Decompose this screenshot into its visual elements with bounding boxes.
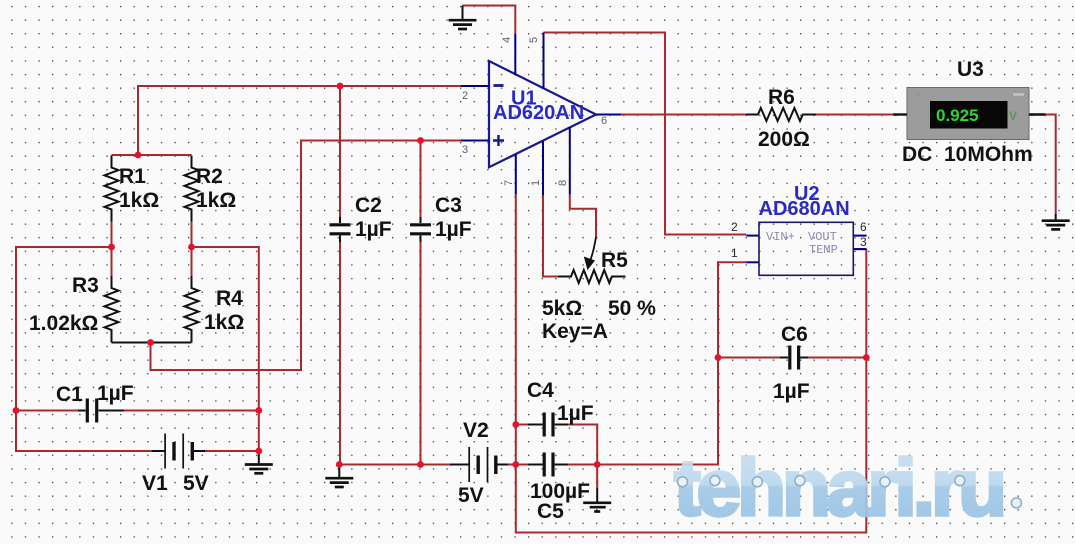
wire U3 to right ground — [1045, 115, 1056, 215]
svg-text:2: 2 — [462, 90, 468, 102]
svg-text:3: 3 — [462, 144, 468, 156]
U3 minus terminal mark — [1013, 93, 1024, 95]
wire U1 pin1 to R5 — [543, 195, 558, 276]
wire R2 to node B — [191, 222, 193, 248]
wire C3 vertical bottom — [420, 242, 422, 465]
ground top (U1 pin4) — [449, 6, 477, 30]
wire C6 left — [718, 357, 780, 359]
svg-text:50 %: 50 % — [608, 297, 656, 320]
node C4 tap — [512, 421, 519, 428]
resistor R1 — [105, 156, 119, 222]
node C2 tap — [337, 83, 344, 90]
wire C2 vertical bottom — [339, 242, 341, 465]
U1 pin 7 stub — [515, 154, 517, 195]
node C1 right — [255, 407, 262, 414]
node ground rail left — [336, 461, 343, 468]
svg-text:R4: R4 — [216, 287, 243, 310]
svg-text:+: + — [915, 87, 922, 101]
capacitor C4 — [528, 413, 568, 437]
ground right (U3) — [1042, 214, 1070, 229]
svg-text:AD620AN: AD620AN — [493, 102, 584, 124]
U1 pin 1 stub — [542, 141, 544, 195]
node C5 right — [594, 461, 601, 468]
battery V2 — [450, 447, 508, 482]
wire U2 pin3 drop — [853, 248, 866, 250]
wire C1 right — [124, 410, 259, 412]
U3 left lead — [893, 113, 907, 115]
svg-text:1µF: 1µF — [97, 382, 134, 405]
U2 pin 2 stub — [746, 235, 759, 237]
svg-text:R1: R1 — [119, 165, 146, 188]
wire C3 vertical top — [420, 141, 422, 218]
svg-text:U3: U3 — [957, 58, 984, 81]
U1 pin 5 stub — [543, 33, 545, 90]
svg-text:C3: C3 — [435, 194, 462, 217]
svg-text:5V: 5V — [458, 484, 484, 507]
ground bottom-left (C2 rail) — [325, 465, 353, 488]
svg-text:R6: R6 — [768, 86, 795, 109]
resistor R6 — [746, 108, 816, 121]
wire C1 left — [16, 410, 78, 412]
svg-text:5: 5 — [528, 37, 540, 43]
ground C5 — [583, 465, 611, 512]
svg-text:1: 1 — [731, 246, 738, 260]
capacitor C2 — [330, 217, 351, 242]
wire top ground to U1 pin4 — [463, 6, 516, 35]
U1 pin 6 stub — [596, 114, 621, 116]
U2 pin 6 stub — [853, 235, 866, 237]
wire bridge top rail — [112, 154, 192, 156]
capacitor C3 — [410, 217, 431, 242]
svg-text:1kΩ: 1kΩ — [204, 311, 244, 334]
node V1 plus — [255, 448, 262, 455]
battery V1 — [152, 434, 205, 469]
wire U1 pin8 to R5 wiper — [570, 195, 596, 237]
wire U1 pin7 rail — [516, 195, 867, 533]
U2 pin 3 stub — [853, 248, 866, 250]
svg-text:C6: C6 — [781, 323, 808, 346]
node bridge top — [135, 152, 142, 159]
wire R1 to node A — [111, 222, 113, 248]
svg-text:1.02kΩ: 1.02kΩ — [29, 312, 98, 335]
node C1 left — [13, 407, 20, 414]
svg-text:8: 8 — [557, 180, 569, 186]
U1 pin 4 stub — [514, 34, 516, 75]
svg-text:200Ω: 200Ω — [758, 128, 810, 151]
capacitor C5 — [528, 453, 568, 477]
U2 pin 1 stub — [746, 261, 759, 263]
svg-text:DC 10MOhm: DC 10MOhm — [902, 143, 1033, 166]
wire U2 pin1 to ground rail — [597, 262, 746, 464]
svg-text:1µF: 1µF — [557, 402, 594, 425]
wire bridge-top to U1 pin2 — [138, 86, 461, 155]
svg-text:VIN+: VIN+ — [766, 230, 795, 244]
node B (R2/R4) — [188, 244, 195, 251]
svg-text:1kΩ: 1kΩ — [196, 189, 236, 212]
wire C4 left — [516, 424, 528, 426]
wire C5 right lead — [568, 464, 597, 466]
svg-text:R3: R3 — [72, 274, 99, 297]
svg-text:V: V — [1009, 109, 1017, 123]
svg-text:7: 7 — [503, 180, 515, 186]
svg-text:TEMP: TEMP — [809, 243, 838, 257]
watermark screw circles — [678, 476, 1022, 508]
wire bottom rail left — [339, 464, 450, 466]
wire U1 pin5 to U2 pin2 — [544, 33, 747, 235]
wire node B to right rail — [192, 247, 259, 451]
op-amp U1 triangle — [489, 61, 596, 167]
wire node A to left rail — [16, 247, 112, 411]
svg-text:4: 4 — [501, 37, 513, 43]
svg-text:1µF: 1µF — [435, 218, 472, 241]
svg-text:3: 3 — [860, 235, 867, 249]
wire C2 vertical top — [339, 86, 341, 217]
R5 wiper arrow — [584, 257, 595, 271]
U3 right lead — [1029, 113, 1046, 115]
potentiometer R5 — [558, 237, 626, 283]
wire node A to R3 — [111, 247, 113, 276]
svg-text:tehnari.ru: tehnari.ru — [674, 443, 1003, 532]
svg-text:1µF: 1µF — [355, 218, 392, 241]
wire node B to R4 — [191, 247, 193, 276]
U1 pin 8 stub — [569, 127, 571, 195]
node A (R1/R3) — [108, 244, 115, 251]
U1 minus input mark — [494, 84, 504, 87]
resistor R3 — [105, 276, 119, 343]
wire C6 right — [808, 357, 866, 359]
wire left rail to V1 — [16, 411, 152, 452]
svg-text:AD680AN: AD680AN — [759, 198, 850, 220]
svg-text:6: 6 — [601, 115, 607, 127]
svg-text:1kΩ: 1kΩ — [119, 189, 159, 212]
U1 pin 3 stub — [461, 140, 489, 142]
resistor R4 — [185, 276, 199, 343]
svg-text:5kΩ: 5kΩ — [542, 297, 582, 320]
svg-text:C1: C1 — [56, 383, 83, 406]
svg-text:R2: R2 — [196, 165, 223, 188]
multimeter U3 body — [907, 88, 1029, 140]
capacitor C1 — [78, 399, 124, 423]
capacitor C6 — [780, 346, 808, 370]
wire bridge bottom (black) — [112, 342, 192, 344]
svg-text:Key=A: Key=A — [542, 320, 608, 343]
svg-text:6: 6 — [860, 220, 867, 234]
svg-text:0.925: 0.925 — [936, 106, 979, 125]
IC U2 box — [759, 222, 853, 275]
svg-text:V2: V2 — [463, 419, 489, 442]
svg-text:R5: R5 — [601, 249, 628, 272]
U1 plus input mark — [493, 135, 504, 146]
node bridge bottom — [147, 339, 154, 346]
wire R6 to U3 — [816, 114, 895, 116]
U3 display — [930, 101, 1008, 129]
node V2 minus — [417, 461, 424, 468]
svg-text:V1: V1 — [142, 472, 168, 495]
svg-text:2: 2 — [731, 220, 738, 234]
wire C4 right — [568, 425, 597, 465]
svg-text:C2: C2 — [355, 194, 382, 217]
watermark tehnari.ru — [674, 443, 1021, 532]
wire V1 plus to ground — [205, 450, 259, 452]
node C3 tap — [417, 137, 424, 144]
svg-text:5V: 5V — [183, 472, 209, 495]
svg-text:C4: C4 — [527, 379, 554, 402]
wire bridge-bottom to U1 pin3 — [151, 141, 462, 371]
ground V1 — [245, 451, 273, 473]
svg-text:C5: C5 — [537, 500, 564, 523]
wire U1 pin6 to R6 — [621, 114, 746, 116]
svg-text:1: 1 — [530, 180, 542, 186]
node C6 right — [863, 354, 870, 361]
U1 pin 2 stub — [461, 85, 489, 87]
resistor R2 — [185, 156, 199, 222]
svg-text:VOUT: VOUT — [808, 230, 837, 244]
wire V2 to C5 node — [508, 464, 528, 466]
svg-text:1µF: 1µF — [773, 380, 810, 403]
node V2 plus — [512, 461, 519, 468]
node C6 left — [715, 354, 722, 361]
